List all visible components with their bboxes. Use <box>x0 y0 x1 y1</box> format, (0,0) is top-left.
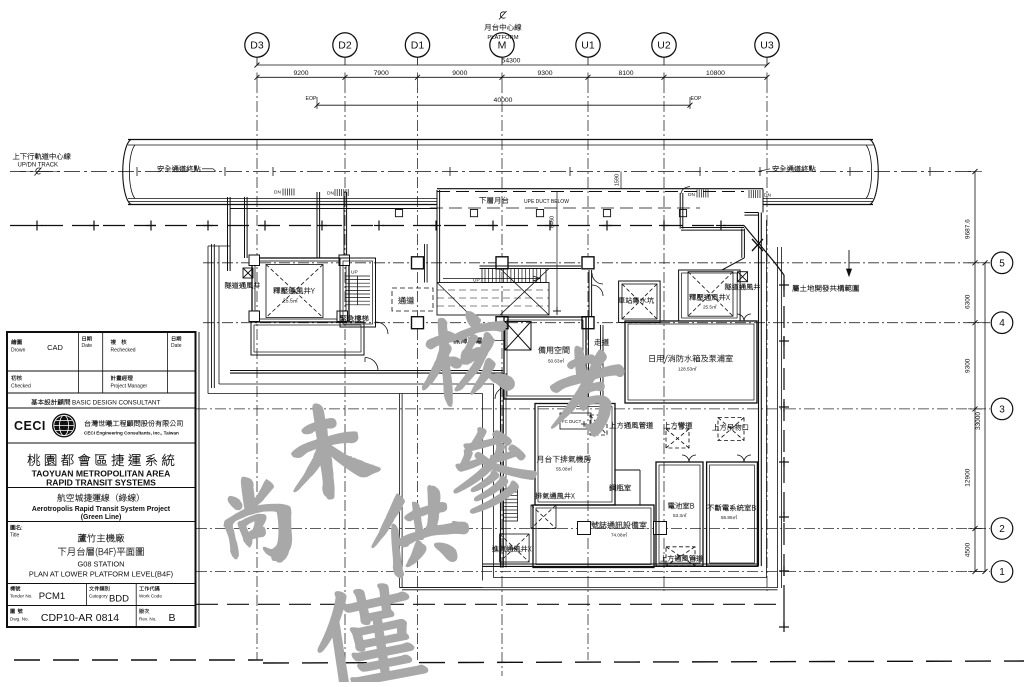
tunnel vent shaft small box east <box>738 272 748 282</box>
southwest boundary line 3 <box>399 394 401 588</box>
svg-text:9687.6: 9687.6 <box>965 219 972 239</box>
svg-text:Rechecked: Rechecked <box>111 348 136 354</box>
svg-text:DN: DN <box>327 191 334 197</box>
west concourse wall at x437 <box>436 190 438 283</box>
svg-text:1590: 1590 <box>615 174 621 186</box>
svg-text:EOP: EOP <box>691 96 702 102</box>
under-platform exhaust room <box>535 404 615 506</box>
dim 1590 <box>620 172 622 189</box>
spare space room <box>504 317 586 399</box>
station sump room <box>619 281 661 323</box>
label station sump <box>618 297 653 304</box>
label intake vent shaft X <box>492 546 531 553</box>
svg-text:Category: Category <box>89 594 108 599</box>
svg-text:U3: U3 <box>760 40 774 52</box>
dimension line 9200 7900 9000 9300 8100 10800 <box>257 76 767 78</box>
label upper vent duct south <box>660 555 703 562</box>
watermark not yet approved - for reference only <box>217 471 297 569</box>
svg-text:Work Code: Work Code <box>139 594 162 599</box>
platform column squares <box>395 210 402 217</box>
station sump hatch <box>622 284 657 319</box>
centerline tick marks <box>136 167 138 176</box>
safety passage end label left <box>158 165 201 172</box>
west wing south wall <box>230 370 503 372</box>
tunnel vent shaft small box west <box>243 268 253 278</box>
title row1 texts <box>11 339 22 344</box>
label joint development zone <box>792 285 858 292</box>
upper vent duct hatch south <box>666 547 695 566</box>
svg-text:U2: U2 <box>657 40 671 52</box>
svg-text:CECI Engineering Consultants,: CECI Engineering Consultants, Inc., Taiw… <box>84 431 179 436</box>
south block west wall <box>500 373 502 568</box>
tunnel west end cap <box>123 140 131 205</box>
label corridor <box>594 339 609 346</box>
svg-text:DN: DN <box>764 193 771 199</box>
system name row <box>28 454 175 466</box>
svg-text:53.3㎡: 53.3㎡ <box>673 512 687 518</box>
emergency stair treads <box>345 275 370 277</box>
escalator diagonals <box>500 269 549 316</box>
svg-text:UP: UP <box>351 270 358 276</box>
svg-text:CAD: CAD <box>47 343 63 352</box>
svg-text:50.63㎡: 50.63㎡ <box>548 358 564 364</box>
EOP dimension 40000 <box>317 104 690 106</box>
up/dn track centre line <box>10 171 975 173</box>
exhaust vent shaft X hatch <box>531 505 556 529</box>
label emergency stair <box>341 315 369 322</box>
label exhaust vent shaft X <box>535 493 574 500</box>
UPS room B <box>707 462 758 566</box>
svg-text:40000: 40000 <box>494 97 513 104</box>
svg-text:FC DUCT: FC DUCT <box>562 419 582 424</box>
project name row <box>57 494 138 502</box>
pressure-relief vent shaft X room <box>679 270 741 321</box>
title row3 basic design consultant <box>31 399 70 405</box>
svg-text:CDP10-AR 0814: CDP10-AR 0814 <box>41 612 119 624</box>
svg-text:EOP: EOP <box>306 96 317 102</box>
svg-text:M: M <box>498 40 507 52</box>
accessible elevator shaft <box>505 322 531 351</box>
south wall of rooms <box>483 563 759 565</box>
svg-text:1: 1 <box>999 567 1005 578</box>
svg-text:74.08㎡: 74.08㎡ <box>611 532 627 538</box>
passage dashed box <box>392 288 433 311</box>
svg-text:G08 STATION: G08 STATION <box>78 560 125 569</box>
vent shaft Y hatch <box>266 265 323 318</box>
vent shaft X hatch <box>688 272 733 317</box>
door arc spare space <box>495 387 507 399</box>
south boundary line 1 <box>493 577 766 579</box>
svg-text:Title: Title <box>10 533 19 539</box>
upper hoist opening hatch <box>718 418 744 441</box>
double door UPS room <box>737 455 751 462</box>
svg-text:Rev. No.: Rev. No. <box>139 617 157 622</box>
south boundary line 2 <box>400 587 778 589</box>
svg-text:128.53㎡: 128.53㎡ <box>678 366 697 372</box>
daily/fire water tank and pump room <box>625 321 757 403</box>
heavy dashed boundary south <box>196 603 784 605</box>
svg-text:(Green Line): (Green Line) <box>81 514 122 521</box>
label accessible elevator <box>453 337 489 344</box>
svg-text:2: 2 <box>999 524 1005 535</box>
upper bend duct hatch <box>666 429 689 448</box>
label lower platform <box>479 197 508 204</box>
door arc stair exit <box>376 322 388 334</box>
svg-text:9300: 9300 <box>537 70 552 77</box>
svg-text:10800: 10800 <box>706 70 725 77</box>
label battery room B <box>668 502 694 509</box>
label under-platform exhaust room <box>537 456 591 463</box>
joint development boundary dashed line with + marks <box>10 225 744 227</box>
svg-text:Date: Date <box>171 343 182 349</box>
wall between U1 columns <box>588 270 590 317</box>
svg-text:BDD: BDD <box>109 594 129 605</box>
lower platform dashed edge <box>437 188 763 190</box>
grid row lines and bubbles 5 4 3 2 1 <box>203 262 990 264</box>
tube bottom wall at station west <box>230 208 437 210</box>
boundary diagonal with X break <box>744 226 775 264</box>
track labels top-left <box>13 153 71 160</box>
intake vent shaft X hatch <box>500 534 529 562</box>
drawing title row <box>11 525 23 530</box>
south stair up <box>504 489 518 521</box>
escalator band <box>437 283 549 316</box>
label spare space <box>538 346 569 353</box>
east tube joint wall <box>762 189 764 213</box>
svg-text:7900: 7900 <box>374 70 389 77</box>
svg-text:PCM1: PCM1 <box>39 591 65 602</box>
svg-text:55.08㎡: 55.08㎡ <box>556 466 572 472</box>
dwg no row cells <box>135 606 137 628</box>
right dimension chain 9687.6 6300 9300 12900 4500 33000 <box>974 172 976 572</box>
FC duct box <box>560 413 591 429</box>
corner columns of vent shaft Y <box>249 255 260 266</box>
label passage <box>398 297 414 304</box>
svg-text:56.86㎡: 56.86㎡ <box>721 514 737 520</box>
svg-text:PLATFORM: PLATFORM <box>487 35 518 41</box>
structural columns on grid <box>412 257 424 269</box>
svg-text:6300: 6300 <box>965 294 972 309</box>
svg-text:Drown: Drown <box>11 348 26 354</box>
corridor walls <box>585 317 587 399</box>
NE room walls <box>679 193 681 229</box>
door arc corridor top <box>592 273 603 284</box>
svg-text:BASIC DESIGN CONSULTANT: BASIC DESIGN CONSULTANT <box>72 400 160 407</box>
svg-text:54300: 54300 <box>502 58 521 65</box>
svg-text:UP/DN TRACK: UP/DN TRACK <box>18 163 59 169</box>
door arc west wing lower <box>365 358 378 371</box>
label signal comms room <box>591 521 646 528</box>
east boundary wall 2 <box>777 247 779 588</box>
dimension line 54300 <box>257 64 767 66</box>
svg-text:Checked: Checked <box>11 384 31 390</box>
svg-text:UPE DUCT BELOW: UPE DUCT BELOW <box>524 199 569 205</box>
svg-text:Project Manager: Project Manager <box>111 384 148 390</box>
tunnel tube outline <box>128 139 873 141</box>
svg-text:Tender No.: Tender No. <box>10 594 32 599</box>
svg-text:CECI: CECI <box>14 419 46 433</box>
svg-text:4500: 4500 <box>965 542 972 557</box>
svg-text:RAPID TRANSIT SYSTEMS: RAPID TRANSIT SYSTEMS <box>46 477 156 487</box>
label water tank pump room <box>650 355 733 363</box>
svg-text:Date: Date <box>82 343 93 349</box>
room pressure-relief vent shaft Y outline <box>252 258 349 322</box>
svg-text:D3: D3 <box>250 40 264 52</box>
tender row cells <box>85 584 87 606</box>
title block frame <box>7 332 196 627</box>
platform centerline label above M <box>500 12 505 18</box>
gas cylinder room walls <box>615 469 640 471</box>
southwest boundary line 1 <box>219 383 493 385</box>
svg-text:B: B <box>168 612 175 624</box>
title row2 texts <box>11 375 22 380</box>
DN stair east 2 <box>748 190 750 198</box>
grid column bubbles D3 D2 D1 M U1 U2 U3 <box>245 33 269 57</box>
svg-text:3: 3 <box>999 404 1005 415</box>
label gas cylinder room <box>609 484 631 491</box>
escalator top wall <box>480 265 582 267</box>
svg-text:5: 5 <box>999 258 1005 269</box>
escalator upper treads <box>482 269 546 283</box>
safety passage end label right <box>773 165 816 172</box>
svg-text:PLAN AT LOWER PLATFORM LEVEL(B: PLAN AT LOWER PLATFORM LEVEL(B4F) <box>29 570 173 579</box>
battery room B <box>656 462 703 566</box>
dim 8460 <box>556 191 558 311</box>
east boundary wall 1 <box>766 220 768 578</box>
svg-text:25.5㎡: 25.5㎡ <box>283 298 298 305</box>
label upper hoist opening <box>712 424 748 431</box>
west wing lower room <box>251 322 364 355</box>
svg-text:D2: D2 <box>338 40 352 52</box>
svg-text:Dwg. No.: Dwg. No. <box>10 617 29 622</box>
west wing west wall <box>227 197 229 271</box>
svg-text:8100: 8100 <box>618 70 633 77</box>
double door battery room <box>682 455 696 462</box>
southwest boundary line 2 <box>208 393 483 395</box>
grid verticals dash-dot <box>256 82 258 660</box>
west DN shaft walls <box>316 192 318 258</box>
double door water room <box>737 314 751 321</box>
NE corner wall pieces <box>744 212 758 214</box>
upper vent duct hatch <box>590 415 607 435</box>
svg-text:33000: 33000 <box>975 412 982 430</box>
signal & comms equipment room <box>533 505 654 568</box>
svg-text:DN: DN <box>688 192 695 198</box>
label vent shaft Y <box>273 287 314 294</box>
svg-text:9200: 9200 <box>293 70 308 77</box>
svg-text:12900: 12900 <box>965 468 972 486</box>
east station wall <box>758 213 760 567</box>
svg-text:4: 4 <box>999 318 1005 329</box>
label UPS room B <box>707 504 755 511</box>
title block row1 cells <box>78 332 80 371</box>
svg-text:25.5㎡: 25.5㎡ <box>703 304 717 310</box>
svg-text:Aerotropolis Rapid Transit: Aerotropolis Rapid Transit System Projec… <box>32 506 171 513</box>
label vent shaft X <box>689 294 729 301</box>
svg-text:DN: DN <box>274 190 281 196</box>
label upper bend duct <box>663 422 692 429</box>
svg-text:U1: U1 <box>581 40 595 52</box>
emergency stair enclosure <box>340 258 376 327</box>
label tunnel vent shaft east <box>725 284 760 291</box>
west outer boundary walls <box>208 245 230 247</box>
svg-text:9000: 9000 <box>452 70 467 77</box>
label upper vent duct north <box>609 422 653 429</box>
svg-text:9300: 9300 <box>965 358 972 373</box>
tunnel east end cap <box>870 140 878 205</box>
columns in signal room wall <box>578 522 591 535</box>
boundary vertical east with + marks <box>775 263 784 275</box>
svg-text:D1: D1 <box>411 40 425 52</box>
svg-text:8460: 8460 <box>550 216 556 228</box>
label tunnel vent shaft west <box>225 282 260 289</box>
svg-text:UP: UP <box>473 278 480 284</box>
bottom long dashed line <box>14 659 263 661</box>
